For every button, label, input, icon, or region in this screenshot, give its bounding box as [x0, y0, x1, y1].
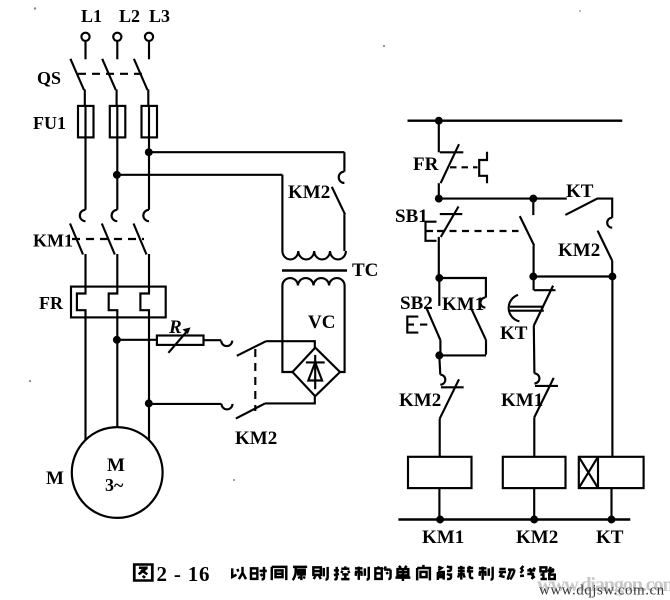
- transformer TC core: [282, 269, 347, 272]
- contactor KM2 contact (TC primary): [339, 172, 345, 183]
- KT delay symbol arc: [509, 295, 520, 321]
- char zhi: [355, 567, 369, 580]
- svg-text:FR: FR: [413, 154, 439, 175]
- switch QS pole 2 blade: [102, 59, 116, 90]
- svg-text:KM2: KM2: [288, 182, 330, 203]
- svg-text:2 - 16: 2 - 16: [157, 562, 211, 586]
- svg-text:KM2: KM2: [558, 240, 600, 261]
- char dan: [395, 566, 410, 581]
- switch QS pole 3 blade: [134, 59, 148, 90]
- node junction bottom KT: [609, 517, 615, 523]
- FR heater element pole 3: [140, 287, 149, 318]
- wire KM1 to FR: [84, 254, 86, 287]
- svg-text:KM1: KM1: [422, 527, 464, 548]
- wire to rectifier bottom: [265, 396, 315, 403]
- char neng: [438, 566, 451, 580]
- button SB1 NC contact: [440, 213, 463, 215]
- QS mechanical link (dashed): [78, 73, 143, 75]
- contactor KM1 main pole 1: [80, 210, 86, 221]
- fuse FU1 pole 2: [116, 105, 118, 138]
- char shi: [251, 567, 267, 580]
- node junction rail2 left: [436, 196, 442, 202]
- node junction on phase 3 lower: [146, 401, 152, 407]
- wire TC secondary left to rectifier: [282, 285, 292, 372]
- char xian: [520, 566, 535, 579]
- svg-text:M: M: [107, 455, 125, 476]
- svg-text:KM2: KM2: [399, 390, 441, 411]
- svg-text:KT: KT: [566, 181, 594, 202]
- coil KT (time relay with X box): [579, 457, 644, 488]
- wire to rectifier top: [266, 341, 315, 348]
- char yuan: [293, 567, 307, 580]
- SB1 plunger symbol: [426, 222, 437, 241]
- wire tap to transformer primary left: [117, 174, 283, 176]
- coil KM1: [408, 457, 472, 488]
- wire KT branch: [611, 277, 613, 457]
- svg-text:M: M: [46, 468, 64, 489]
- wire FU1 to KM1 contacts: [84, 137, 86, 209]
- SB2 plunger symbol: [407, 317, 427, 333]
- coil KM2: [503, 457, 566, 488]
- wire to KM2 coil: [533, 417, 535, 456]
- contactor KM2 brake contact lower: [222, 404, 233, 410]
- node junction top rail: [436, 118, 442, 124]
- wire self-lock bottom: [439, 354, 486, 356]
- node junction rail2 right: [530, 196, 536, 202]
- char kong: [334, 566, 350, 579]
- wire rail 2: [439, 198, 567, 200]
- FR thermal actuator symbol: [479, 152, 487, 184]
- char dong: [499, 569, 515, 580]
- svg-text:SB1: SB1: [395, 206, 428, 227]
- diode inside VC: [314, 355, 316, 389]
- node L3 terminal: [145, 33, 153, 41]
- wire to KM2 NC: [439, 355, 440, 374]
- node junction KM1-branch top: [436, 275, 442, 281]
- char lu: [540, 567, 554, 579]
- button SB2 NO contact: [438, 278, 440, 306]
- contactor KM2 NO contact (right): [607, 218, 612, 228]
- char jian: [272, 567, 287, 580]
- char yi: [232, 567, 246, 579]
- node junction bottom KM1: [437, 517, 443, 523]
- contactor KM1 main pole 3: [143, 210, 149, 221]
- node junction bottom KM2: [531, 517, 537, 523]
- wire L1 to QS: [84, 41, 86, 59]
- wire FR to rail 2: [438, 183, 440, 198]
- char ze: [313, 567, 327, 580]
- svg-text:FR: FR: [39, 293, 64, 313]
- switch QS pole 1 blade: [70, 59, 84, 90]
- svg-text:FU1: FU1: [33, 113, 66, 133]
- relay FR NC contact: [440, 151, 464, 153]
- fuse FU1 pole 1: [84, 105, 86, 138]
- KM2 brake mechanical link (dashed): [254, 349, 256, 411]
- char xiang: [417, 565, 430, 581]
- wire TC secondary right to rectifier: [340, 285, 345, 372]
- contactor KM2 NC interlock: [440, 375, 445, 385]
- wire L2 to QS: [116, 41, 118, 59]
- node junction below SB2: [436, 353, 442, 359]
- wire KT NC to KM1 NC: [533, 326, 536, 374]
- wire control top rail: [408, 120, 623, 122]
- svg-text:www.dqjsw.com.cn: www.dqjsw.com.cn: [539, 583, 665, 599]
- wire to KM1 coil: [439, 419, 441, 457]
- wire QS pole1 to FU1: [84, 90, 86, 107]
- wire bottom rail: [398, 518, 630, 520]
- svg-text:KM1: KM1: [33, 231, 73, 251]
- svg-text:SB2: SB2: [400, 293, 433, 314]
- relay KT NC delayed contact: [533, 277, 535, 291]
- char de: [375, 566, 390, 579]
- svg-text:L1: L1: [81, 6, 102, 26]
- rectifier VC bridge diamond: [293, 348, 341, 397]
- node L2 terminal: [113, 33, 121, 41]
- button SB1 NO contact (linked): [532, 199, 534, 216]
- KM1 mechanical link (dashed): [72, 238, 144, 240]
- svg-text:L2: L2: [119, 6, 140, 26]
- wire down to FR contact: [438, 121, 440, 153]
- contactor KM1 NC interlock: [534, 373, 539, 383]
- wire R to KM2 brake contact upper: [204, 339, 222, 341]
- contactor KM2 brake contact upper: [221, 341, 232, 347]
- svg-text:KM1: KM1: [442, 294, 484, 315]
- wire QS pole2 to FU1: [116, 90, 118, 107]
- relay KT NO contact (top): [565, 199, 612, 218]
- svg-text:L3: L3: [149, 6, 170, 26]
- caption 图 2-16 以时间原则控制的单向能耗制动线路: [134, 565, 554, 582]
- wire KM2 to TC primary right: [343, 214, 345, 251]
- node junction on L2 phase: [114, 172, 120, 178]
- contactor KM1 self-lock contact: [480, 298, 485, 308]
- svg-text:3~: 3~: [105, 475, 124, 495]
- char tu: [134, 565, 152, 581]
- wire down to TC primary left: [281, 175, 283, 251]
- wire to KM1 self-lock branch: [439, 278, 486, 298]
- wire to resistor R: [117, 339, 157, 341]
- svg-text:KT: KT: [596, 527, 624, 548]
- char hao: [458, 566, 473, 580]
- svg-text:TC: TC: [352, 260, 378, 281]
- node junction left: [530, 274, 536, 280]
- SB1 dashed link: [437, 230, 519, 232]
- svg-text:KM2: KM2: [235, 428, 277, 449]
- transformer TC secondary winding: [282, 278, 344, 285]
- node junction on phase 2 to resistor: [114, 337, 120, 343]
- wire L3 to QS: [148, 41, 150, 59]
- transformer TC primary winding: [282, 251, 346, 259]
- wire tap to KM2 braking contactor (upper): [149, 151, 345, 153]
- node L1 terminal: [81, 33, 89, 41]
- motor M circle: [72, 427, 163, 518]
- FR heater element pole 2: [109, 287, 118, 318]
- svg-text:KM1: KM1: [501, 390, 543, 411]
- node junction right: [610, 274, 616, 280]
- svg-text:VC: VC: [308, 312, 335, 333]
- wire corner down to KM2-TC contact: [343, 152, 345, 171]
- thermal relay FR box: [71, 287, 166, 318]
- FR dashed link: [450, 166, 478, 168]
- wire FR to motor phase 2: [116, 317, 118, 427]
- svg-text:KM2: KM2: [516, 527, 558, 548]
- svg-text:KT: KT: [500, 323, 528, 344]
- svg-text:R: R: [168, 317, 182, 338]
- wire node row: [533, 275, 612, 277]
- contactor KM1 main pole 2: [112, 210, 118, 221]
- wire FR to motor phase 1: [84, 317, 86, 440]
- wire QS pole3 to FU1: [147, 90, 149, 107]
- char zhi2: [479, 567, 493, 580]
- FR heater element pole 1: [77, 287, 86, 318]
- resistor R (adjustable): [157, 336, 204, 345]
- wire FR to motor phase 3: [148, 317, 150, 440]
- fuse FU1 pole 3: [148, 105, 150, 138]
- svg-text:QS: QS: [37, 68, 61, 88]
- wire to KM2 brake contact lower: [149, 403, 222, 405]
- node junction on L3 phase: [146, 149, 152, 155]
